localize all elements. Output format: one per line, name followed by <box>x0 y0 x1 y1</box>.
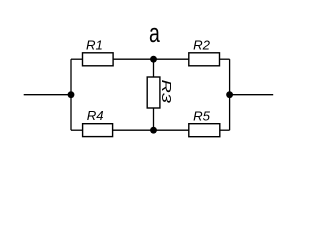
resistor R3 <box>147 77 173 108</box>
node right junction <box>226 91 233 98</box>
resistor R1 <box>83 38 114 66</box>
wire bottom rail middle segment <box>113 129 189 131</box>
wire right lead <box>230 94 274 96</box>
resistor R2 <box>189 37 220 65</box>
node left junction <box>68 91 75 98</box>
wire top rail right segment <box>220 58 230 60</box>
wire bottom rail left segment <box>71 129 83 131</box>
wire R3 bottom to bottom rail <box>153 108 155 130</box>
svg-text:R5: R5 <box>193 108 211 123</box>
wire node a to R3 top <box>153 59 155 77</box>
svg-text:R4: R4 <box>87 108 104 123</box>
node bottom junction <box>150 127 157 134</box>
svg-text:a: a <box>149 18 160 47</box>
wire left vertical branch <box>70 59 72 130</box>
svg-text:R3: R3 <box>159 80 173 103</box>
resistor R5 <box>189 108 220 136</box>
wire right vertical branch <box>229 59 231 130</box>
wire top rail left segment <box>71 58 83 60</box>
wire bottom rail right segment <box>220 129 230 131</box>
node a <box>149 18 160 62</box>
wire top rail middle segment <box>113 58 189 60</box>
svg-text:R1: R1 <box>86 38 103 53</box>
svg-text:R2: R2 <box>193 37 211 52</box>
wire left lead <box>24 94 71 96</box>
resistor R4 <box>83 108 113 137</box>
